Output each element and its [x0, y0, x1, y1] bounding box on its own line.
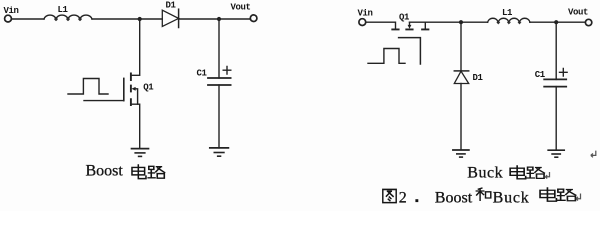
svg-text:Vin: Vin: [358, 8, 373, 18]
svg-text:C1: C1: [535, 70, 546, 80]
svg-text:Vout: Vout: [231, 3, 251, 13]
svg-text:2: 2: [399, 189, 407, 206]
svg-text:Q1: Q1: [143, 82, 154, 92]
svg-text:L1: L1: [502, 8, 513, 18]
svg-text:Q1: Q1: [399, 13, 410, 23]
svg-text:C1: C1: [197, 69, 208, 79]
svg-text:Vout: Vout: [568, 8, 588, 18]
svg-text:Boost: Boost: [435, 189, 473, 206]
svg-text:L1: L1: [58, 5, 69, 15]
svg-text:Buck: Buck: [467, 165, 503, 182]
svg-text:D1: D1: [473, 73, 484, 83]
svg-text:Vin: Vin: [4, 6, 19, 16]
svg-text:D1: D1: [166, 1, 177, 11]
svg-text:Buck: Buck: [493, 189, 530, 206]
svg-text:Boost: Boost: [86, 163, 124, 180]
